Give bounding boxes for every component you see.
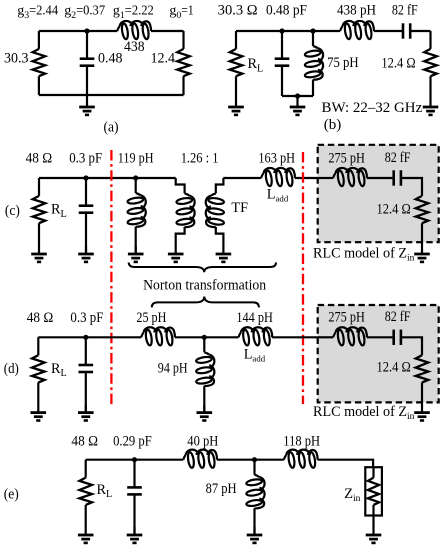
svg-text:40 pH: 40 pH	[187, 434, 218, 450]
node dot (a) top	[84, 28, 89, 33]
resistor 30.3 left (a)	[38, 31, 40, 49]
inductor 40 pH (e)	[183, 450, 217, 469]
inductor 87 pH (e)	[253, 460, 255, 475]
ground (a)	[79, 95, 95, 115]
resistor 12.4 right (a)	[182, 31, 184, 49]
svg-text:(a): (a)	[103, 119, 118, 135]
node dot (d) coil junction	[202, 335, 207, 340]
ground (c) TF secondary	[216, 246, 232, 262]
resistor 12.4 ohm (b)	[429, 31, 431, 49]
svg-text:48 Ω: 48 Ω	[26, 150, 53, 166]
svg-text:Norton transformation: Norton transformation	[143, 278, 266, 294]
wire top (d)	[38, 336, 141, 338]
svg-text:BW: 22–32 GHz: BW: 22–32 GHz	[322, 100, 423, 116]
node dot (c) cap junction	[83, 175, 88, 180]
svg-text:163 pH: 163 pH	[258, 150, 295, 166]
wire top (c)	[39, 177, 176, 179]
node dot (e) coil junction	[252, 457, 257, 462]
svg-text:12.4 Ω: 12.4 Ω	[381, 56, 415, 72]
svg-text:RLC model of Zin: RLC model of Zin	[313, 404, 415, 422]
brace under transformer (c)	[129, 263, 276, 273]
brace above (d)	[152, 297, 259, 308]
svg-text:RL: RL	[51, 202, 67, 220]
subfigure (a): lowpass prototype network	[4, 4, 194, 136]
svg-text:275 pH: 275 pH	[328, 309, 365, 325]
node dot (c) coil junction	[133, 175, 138, 180]
capacitor 0.3 pF (d)	[85, 337, 87, 365]
inductor 25 pH (d)	[141, 327, 175, 346]
svg-text:48 Ω: 48 Ω	[71, 434, 98, 450]
svg-text:438: 438	[124, 39, 145, 55]
svg-text:g2=0.37: g2=0.37	[64, 4, 105, 21]
ground (b) RL	[228, 76, 244, 115]
transformer TF primary winding	[176, 178, 185, 193]
gray box RLC model (d)	[318, 305, 439, 402]
capacitor 82 fF (d)	[394, 330, 401, 345]
capacitor 0.48 (a)	[86, 31, 88, 59]
svg-text:30.3: 30.3	[4, 51, 29, 67]
inductor 438 pH (b)	[340, 21, 374, 40]
capacitor 82 fF (c)	[394, 170, 401, 185]
wire secondary to Ladd	[223, 177, 261, 179]
svg-text:0.48: 0.48	[98, 51, 123, 67]
wire coil to cap (d)	[367, 336, 394, 338]
subfigure (b): bandpass transformed network	[218, 3, 439, 133]
svg-text:94 pH: 94 pH	[158, 360, 188, 376]
resistor RL (e)	[85, 460, 87, 478]
ground (c) RL	[31, 223, 47, 262]
red dash-dot line right	[302, 152, 304, 404]
inductor 75 pH (b)	[312, 31, 314, 46]
capacitor 82 fF (b)	[403, 23, 410, 38]
ground (d) 94 pH	[197, 405, 213, 421]
svg-text:g1=2.22: g1=2.22	[113, 4, 154, 21]
svg-text:Ladd: Ladd	[267, 186, 289, 203]
transformer TF secondary winding	[216, 178, 224, 193]
svg-text:0.3 pF: 0.3 pF	[70, 310, 103, 326]
inductor 275 pH (c)	[333, 168, 367, 187]
subfigure (d): network after Norton transformation	[4, 305, 439, 422]
svg-text:12.4 Ω: 12.4 Ω	[377, 360, 411, 376]
svg-text:30.3 Ω: 30.3 Ω	[218, 3, 258, 19]
ground (c) TF primary	[168, 246, 184, 262]
node dot (b) cap junction	[279, 28, 284, 33]
svg-text:12.4 Ω: 12.4 Ω	[377, 201, 411, 217]
wire cap to corner (c)	[401, 178, 422, 196]
ground (e) Zin	[366, 516, 382, 543]
wire top (e)	[86, 459, 184, 461]
node dot (e) cap junction	[132, 457, 137, 462]
wire cap to corner (d)	[401, 337, 422, 355]
wire top (a)	[39, 30, 117, 32]
svg-text:0.48 pF: 0.48 pF	[266, 3, 307, 19]
svg-text:12.4: 12.4	[151, 51, 176, 67]
inductor 118 pH (e)	[284, 450, 318, 469]
svg-text:0.3 pF: 0.3 pF	[69, 150, 102, 166]
svg-text:RL: RL	[248, 56, 264, 74]
svg-text:RLC model of Zin: RLC model of Zin	[313, 246, 415, 264]
wire coil to cap (c)	[367, 177, 394, 179]
svg-text:0.29 pF: 0.29 pF	[113, 434, 152, 450]
node dot (b) coil junction	[310, 28, 315, 33]
wire into box (c)	[318, 177, 334, 179]
wire bottom (b)	[282, 95, 313, 97]
subfigure (e): final matching network	[4, 434, 382, 543]
svg-text:(c): (c)	[5, 203, 20, 219]
wire top (b)	[236, 30, 340, 32]
svg-text:82 fF: 82 fF	[392, 3, 418, 19]
subfigure (c): network with transformer	[5, 145, 439, 407]
impedance Zin box (e)	[365, 467, 382, 515]
resistor 12.4 ohm (c)	[416, 196, 429, 223]
svg-text:RL: RL	[51, 361, 67, 379]
gray box RLC model (c)	[318, 145, 439, 242]
svg-text:(e): (e)	[4, 487, 19, 503]
svg-text:82 fF: 82 fF	[385, 150, 411, 166]
svg-text:75 pH: 75 pH	[327, 55, 359, 71]
ground (d) RL	[31, 383, 47, 421]
svg-text:275 pH: 275 pH	[328, 150, 365, 166]
svg-text:87 pH: 87 pH	[206, 481, 237, 497]
svg-text:48 Ω: 48 Ω	[27, 310, 54, 326]
ground (e) 87 pH	[247, 527, 263, 543]
ground (b) middle	[290, 96, 306, 115]
capacitor 0.3 pF (c)	[85, 178, 87, 206]
svg-text:118 pH: 118 pH	[283, 434, 320, 450]
svg-text:25 pH: 25 pH	[136, 310, 166, 326]
svg-text:144 pH: 144 pH	[236, 310, 273, 326]
ground (c) 119 pH	[128, 246, 144, 262]
wire bottom (a)	[39, 94, 184, 96]
resistor RL (d)	[37, 337, 39, 355]
capacitor 0.48 pF (b)	[281, 31, 283, 59]
ground (d) cap	[78, 405, 94, 421]
svg-text:Zin: Zin	[344, 486, 360, 504]
node dot (b) bottom	[295, 93, 300, 98]
ground (e) RL	[78, 505, 94, 543]
capacitor 0.29 pF (e)	[133, 460, 135, 488]
svg-text:82 fF: 82 fF	[385, 309, 411, 325]
svg-text:1.26 : 1: 1.26 : 1	[181, 150, 219, 166]
resistor 12.4 ohm (d)	[416, 355, 429, 382]
ground (c) cap	[78, 246, 94, 262]
svg-text:438 pH: 438 pH	[337, 3, 376, 19]
red dash-dot line left	[110, 150, 112, 407]
ground (b) right	[423, 76, 439, 115]
resistor RL (b)	[235, 31, 237, 49]
svg-text:Ladd: Ladd	[244, 347, 266, 364]
wire Ladd to box (c)	[295, 177, 333, 179]
inductor 119 pH (c)	[135, 178, 137, 193]
node dot (d) cap junction	[83, 335, 88, 340]
svg-text:g3=2.44: g3=2.44	[17, 4, 58, 21]
ground (c) 12.4 ohm	[414, 223, 430, 262]
inductor 438 (a)	[117, 21, 151, 40]
inductor Ladd 144 pH (d)	[239, 327, 273, 346]
svg-text:TF: TF	[231, 200, 248, 216]
svg-text:g0=1: g0=1	[169, 4, 193, 21]
ground (d) 12.4 ohm	[414, 383, 430, 421]
inductor 275 pH (d)	[333, 327, 367, 346]
wire into box (d)	[318, 336, 334, 338]
svg-text:RL: RL	[97, 482, 113, 500]
svg-text:(d): (d)	[4, 361, 19, 377]
svg-text:(b): (b)	[324, 117, 342, 133]
svg-text:119 pH: 119 pH	[118, 150, 154, 166]
ground (e) cap	[127, 527, 143, 543]
resistor inside Zin box	[372, 467, 374, 477]
resistor RL (c)	[38, 178, 40, 196]
inductor 94 pH (d)	[203, 337, 205, 352]
inductor Ladd 163 pH (c)	[261, 168, 295, 187]
